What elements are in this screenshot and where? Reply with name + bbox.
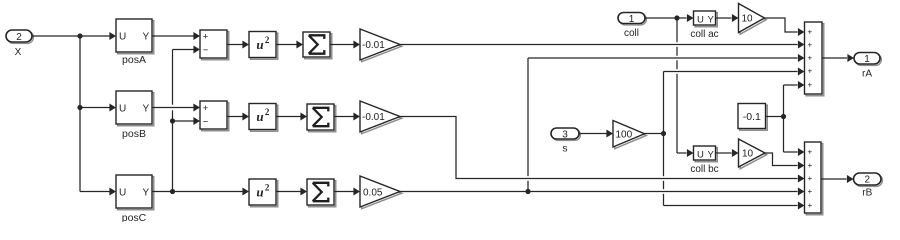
sum block sum2 (posB-posC) [200,101,229,131]
wire u2C to sigmaC [276,188,307,196]
label posA [122,54,146,66]
wire trunk corner to posC [80,188,116,196]
junction s100 [661,131,666,136]
gain 10 (coll ac) [739,4,767,35]
gain 0.05 (row C) [360,176,402,209]
svg-text:+: + [807,81,812,90]
add block Add2 [805,142,823,215]
junction -0.1 [781,114,786,119]
gain 100 [613,121,646,149]
svg-text:+: + [203,103,209,114]
label coll [624,28,639,39]
constant -0.1 [738,104,767,131]
sum-of-elements sigmaB [307,104,336,132]
wire X vertical trunk [79,36,81,192]
wire gain10a to Add1 input1 [765,18,805,36]
wire -0.1 down to Add2 input1 [784,148,805,156]
output port 2 (rB) oval [854,173,883,186]
junction posC branch to sum2 minus [170,118,175,123]
wire gain100 to junction [645,133,664,135]
svg-text:rB: rB [862,188,872,199]
wire sigmaB to gainB [334,113,360,121]
svg-text:coll bc: coll bc [690,164,718,175]
gain -0.01 (row B) [360,101,402,134]
svg-text:2: 2 [16,32,22,43]
svg-text:+: + [807,54,812,63]
label coll bc [690,164,718,175]
svg-text:-0.1: -0.1 [743,111,761,123]
svg-text:coll ac: coll ac [690,29,718,40]
svg-text:+: + [807,187,812,196]
svg-text:+: + [807,41,812,50]
wire -0.1 up to Add1 input5 [784,81,805,89]
svg-text:Y: Y [143,188,150,199]
wire posC branch to sum2 minus [173,117,201,125]
gain 10 (coll bc) [739,139,767,169]
wire posC to u2C [152,188,249,196]
wire junction to posA [80,32,116,40]
add block Add1 [805,22,824,96]
label rB [862,188,872,199]
wire gainB to Add2 input3 [400,117,805,183]
svg-text:+: + [807,148,812,157]
sum-of-elements sigmaC [307,179,336,207]
input port 1 (coll) oval [618,13,646,26]
svg-text:U: U [119,32,126,43]
svg-text:−: − [203,45,209,56]
svg-text:Y: Y [708,14,715,25]
svg-text:10: 10 [742,14,754,25]
sum block sum1 (posA-posC) [200,30,229,60]
wire X to junction [32,35,80,37]
wire s100 up to Add1 input4 (hops rowB rowC wires) [663,72,665,206]
svg-text:2: 2 [265,182,270,192]
wire coll bc to gain10b [716,149,739,157]
wire sigmaA to gainA [330,41,360,49]
svg-text:+: + [807,28,812,37]
wire gainC to Add2 input4 [400,188,805,196]
svg-text:posA: posA [122,54,146,66]
wire u2B to sigmaB [276,113,307,121]
svg-text:−: − [203,117,209,128]
label coll ac [690,29,718,40]
wire posB to sum2 plus [152,104,200,112]
junction posC branch [170,189,175,194]
input port 3 (s) oval [551,128,580,141]
svg-text:+: + [807,201,812,210]
wire rowC branch to Add1 input3 [528,54,805,62]
svg-text:posB: posB [122,128,146,140]
wire s to gain100 [579,130,613,138]
subsystem posA [116,19,154,54]
svg-text:+: + [807,174,812,183]
wire s100 to Add1 input4 [664,68,805,76]
svg-text:rA: rA [862,69,872,80]
wire gain10b to Add2 input2 [765,153,805,170]
svg-text:Y: Y [143,32,150,43]
wire coll ac to gain10a [716,14,739,22]
subsystem coll bc [694,146,718,162]
svg-text:U: U [697,149,704,160]
label posB [122,128,146,140]
svg-text:U: U [697,14,704,25]
svg-text:+: + [807,161,812,170]
svg-text:100: 100 [616,130,633,141]
wire posC vertical branch (hops posB wire) [172,50,174,192]
svg-text:-0.01: -0.01 [362,40,385,51]
svg-text:u: u [256,109,263,124]
svg-text:U: U [119,188,126,199]
wire sum2 to u2B [227,113,249,121]
svg-text:1: 1 [864,54,870,65]
wire posA to sum1 plus [152,32,200,40]
wire Add2 to rB [821,175,854,183]
wire coll to coll ac [645,14,694,22]
svg-text:2: 2 [864,175,870,186]
wire s100 down to Add2 input5 [664,202,805,210]
wire sum1 to u2A [227,41,249,49]
wire junction to posB [80,104,116,112]
junction on X wire at posA row [77,33,82,38]
label posC [122,212,147,224]
svg-text:+: + [807,67,812,76]
math block u2B [249,104,278,132]
gain -0.01 (row A) [360,29,402,62]
svg-text:1: 1 [629,14,635,25]
input port 2 (X) oval [6,30,33,43]
wire coll down corner to coll bc [677,149,694,157]
svg-text:u: u [256,185,263,200]
svg-text:Y: Y [143,104,150,115]
junction rowC branch [525,189,530,194]
svg-text:+: + [203,32,209,43]
math block u2A [249,32,278,60]
wire Add1 to rA [822,54,854,62]
svg-text:U: U [119,104,126,115]
svg-text:u: u [256,37,263,52]
svg-text:2: 2 [265,107,270,117]
wire coll vertical to coll bc (hops three wires) [676,18,678,153]
svg-text:Y: Y [708,149,715,160]
junction on X trunk at posB row [77,105,82,110]
svg-text:X: X [15,47,22,58]
label X [15,47,22,58]
wire posC branch to sum1 minus [173,46,201,54]
svg-text:3: 3 [562,130,568,141]
wire gainA to Add1 input2 [400,41,805,49]
subsystem coll ac [694,11,718,27]
svg-text:s: s [563,144,568,155]
svg-text:coll: coll [624,28,639,39]
wire sigmaC to gainC [334,188,360,196]
svg-text:posC: posC [122,212,147,222]
svg-text:2: 2 [265,35,270,45]
subsystem posC [116,175,154,210]
label rA [862,69,872,80]
output port 1 (rA) oval [854,53,881,66]
wire -0.1 vertical [783,85,785,152]
svg-text:10: 10 [742,149,754,160]
label s [563,144,568,155]
svg-text:0.05: 0.05 [363,188,383,199]
svg-text:-0.01: -0.01 [362,112,385,123]
junction coll [674,15,679,20]
wire -0.1 to junction [766,116,784,118]
sum-of-elements sigmaA [303,32,332,59]
math block u2C [249,179,278,207]
wire u2A to sigmaA [276,41,303,49]
subsystem posB [116,91,154,126]
wire rowC branch vertical (hops rowB wire) [527,58,529,192]
